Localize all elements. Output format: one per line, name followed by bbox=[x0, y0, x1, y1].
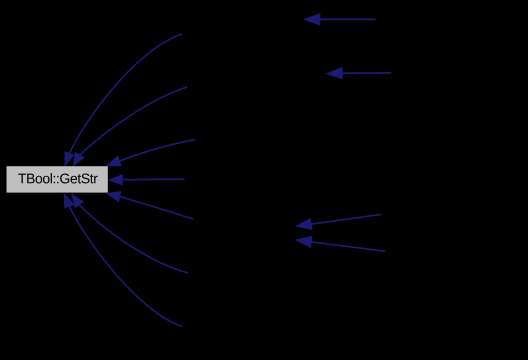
edge from caller 5a to caller 5 bbox=[296, 214, 381, 229]
edge from caller 6 to TBool::GetStr bbox=[72, 194, 189, 273]
edge from caller 1a to caller 1 bbox=[304, 14, 376, 26]
node TBool::GetStr (current function) bbox=[7, 166, 108, 192]
edge from caller 2a to caller 2 bbox=[326, 67, 391, 79]
edge from caller 3 to TBool::GetStr bbox=[106, 140, 195, 166]
edge from caller 2 to TBool::GetStr bbox=[73, 87, 187, 166]
edge from caller 7 (bottom) to TBool::GetStr bbox=[64, 193, 182, 326]
edge from caller 1 (top) to TBool::GetStr bbox=[65, 34, 182, 166]
edge from caller 5b to caller 5 bbox=[296, 236, 386, 251]
edge from caller 5 to TBool::GetStr bbox=[107, 191, 194, 219]
edge from caller 4 to TBool::GetStr bbox=[108, 175, 184, 186]
